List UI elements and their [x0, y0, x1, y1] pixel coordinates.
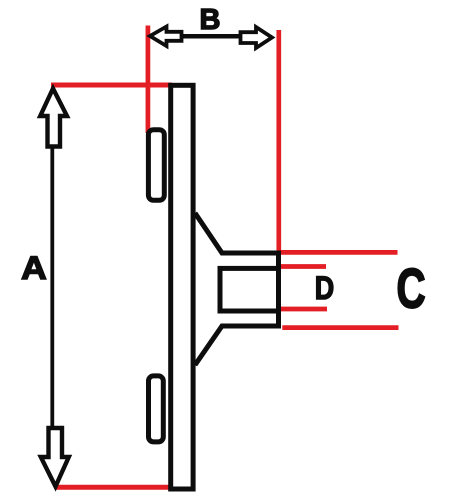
extension line A top (red): [51, 83, 172, 88]
svg-text:D: D: [315, 271, 334, 307]
dimension line D bottom (red): [278, 307, 327, 312]
label D: [315, 271, 334, 307]
dimension line C top (red): [280, 250, 398, 255]
svg-text:A: A: [21, 250, 47, 286]
svg-text:B: B: [200, 4, 221, 36]
lower standoff: [149, 376, 164, 442]
dimension arrowhead A down: [41, 428, 69, 487]
dimension line A shaft: [50, 146, 54, 428]
bore rectangle: [220, 268, 279, 311]
flange plate: [171, 85, 193, 489]
dimension line B shaft: [170, 34, 250, 39]
extension line B left (red): [146, 26, 151, 134]
dimension line D top (red): [277, 264, 326, 269]
extension line B right (red): [276, 30, 281, 253]
dimension arrowhead A up: [40, 89, 67, 147]
extension line A bottom (red): [55, 485, 170, 490]
upper standoff: [148, 130, 164, 201]
dimension line C bottom (red): [282, 325, 398, 330]
svg-text:C: C: [397, 258, 426, 320]
label A: [21, 250, 47, 286]
hub profile: [195, 213, 279, 365]
dimension arrowhead B left: [150, 27, 182, 47]
label C: [397, 258, 426, 320]
dimension arrowhead B right: [241, 27, 273, 48]
